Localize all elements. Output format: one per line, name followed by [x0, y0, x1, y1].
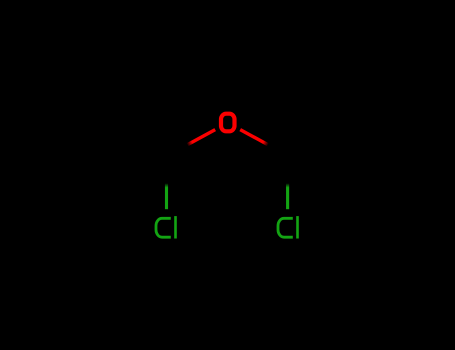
wire: C1-Cl bond left carbon half (black, invisible)	[165, 160, 168, 184]
wire: C1-O bond left carbon half (black, invisible)	[167, 145, 188, 160]
atom label Cl right: letter l	[296, 216, 299, 238]
wire: C1'-Cl bond, chlorine half (green, right)	[286, 184, 289, 210]
wire: C2-C1 bond (left, carbon black, invisible on black)	[106, 122, 167, 160]
wire: C3'-C2' bond (right ethyl, carbon black, invisible)	[349, 122, 410, 160]
wire: C1-Cl bond, chlorine half (green, left)	[165, 184, 168, 210]
atom label Cl left (chlorine, green): letter C	[156, 218, 171, 237]
atom label Cl right (chlorine, green): letter C	[278, 218, 293, 237]
wire: O-C1' bond, oxygen half (red)	[240, 130, 268, 145]
atom label Cl left: letter l	[174, 216, 177, 238]
wire: C1'-Cl bond right carbon half (black, invisible)	[286, 160, 289, 184]
wire: C2'-C1' bond (right, carbon black, invisible)	[288, 122, 349, 160]
wire: C1-O bond, oxygen half (red)	[188, 130, 216, 145]
wire: C3-C2 bond (left ethyl, carbon black, invisible on black)	[44, 122, 105, 160]
wire: C1'-O bond right carbon half (black, invisible)	[268, 145, 288, 160]
atom label O (oxygen, red, bold)	[221, 114, 235, 132]
